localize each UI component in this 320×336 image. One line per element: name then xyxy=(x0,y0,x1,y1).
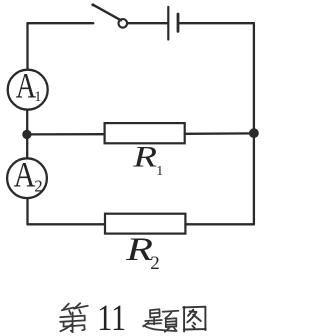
battery long plate xyxy=(167,7,169,40)
wire battery to top-right corner xyxy=(180,22,254,24)
node right junction xyxy=(249,128,259,138)
wire A1 to A2 through node xyxy=(26,110,28,159)
svg-text:R: R xyxy=(132,141,157,173)
caption hanzi DI (first) xyxy=(60,303,88,332)
wire bottom-left segment xyxy=(28,223,106,225)
wire switch to battery xyxy=(128,22,167,24)
svg-text:A: A xyxy=(16,65,36,105)
wire top-left horizontal segment xyxy=(28,22,94,24)
svg-text:A: A xyxy=(14,156,36,195)
node left junction xyxy=(22,130,31,139)
wire middle-right segment xyxy=(185,132,254,135)
battery short plate xyxy=(177,14,180,31)
ammeter A2 label xyxy=(14,156,36,195)
ammeter A1 label xyxy=(16,65,36,105)
wire middle-left segment xyxy=(27,133,105,135)
wire top-left vertical down to A1 xyxy=(26,23,28,70)
resistor R1 box xyxy=(105,123,185,143)
resistor R1 value label xyxy=(132,141,157,173)
switch lever pivot dot xyxy=(92,3,95,6)
ammeter A1 circle xyxy=(8,70,48,110)
caption hanzi TU (figure) xyxy=(183,307,206,332)
wire bottom-right segment xyxy=(186,223,254,225)
caption hanzi TI (question) xyxy=(143,309,178,332)
switch S lever xyxy=(93,5,121,21)
switch S pivot circle xyxy=(119,19,128,28)
svg-text:R: R xyxy=(125,231,153,268)
wire A2 to bottom-left corner xyxy=(26,198,28,224)
caption number 11 xyxy=(97,298,126,336)
svg-text:1: 1 xyxy=(34,89,41,105)
ammeter A2 circle xyxy=(7,158,47,198)
resistor R2 value label xyxy=(125,231,153,268)
svg-text:1: 1 xyxy=(156,164,163,179)
svg-text:2: 2 xyxy=(150,253,160,274)
wire right vertical xyxy=(253,23,255,224)
svg-text:2: 2 xyxy=(34,177,42,196)
svg-text:11: 11 xyxy=(97,298,126,336)
resistor R2 box xyxy=(105,214,185,234)
